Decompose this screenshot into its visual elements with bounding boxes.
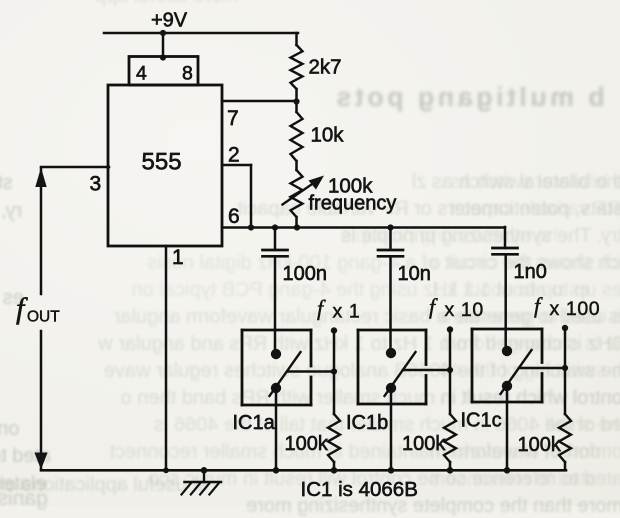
svg-text:10n: 10n — [398, 263, 431, 285]
svg-text:IC1 is 4066B: IC1 is 4066B — [301, 478, 418, 501]
svg-text:4: 4 — [136, 63, 147, 85]
svg-text:2: 2 — [228, 144, 240, 167]
svg-text:+9V: +9V — [151, 10, 188, 32]
svg-text:100n: 100n — [283, 263, 328, 285]
svg-text:x 1: x 1 — [328, 301, 360, 323]
svg-text:OUT: OUT — [27, 309, 60, 326]
svg-text:2k7: 2k7 — [309, 56, 342, 79]
svg-text:x 10: x 10 — [440, 299, 484, 321]
svg-text:f: f — [429, 294, 438, 319]
svg-text:f: f — [534, 293, 543, 318]
svg-text:1: 1 — [172, 246, 184, 269]
svg-text:10k: 10k — [311, 124, 345, 147]
svg-text:7: 7 — [227, 107, 239, 130]
svg-text:x 100: x 100 — [545, 298, 600, 320]
svg-text:frequency: frequency — [309, 193, 397, 215]
svg-text:6: 6 — [228, 205, 240, 228]
svg-text:IC1a: IC1a — [233, 412, 276, 434]
svg-text:3: 3 — [90, 173, 102, 196]
svg-text:IC1b: IC1b — [346, 412, 388, 434]
svg-text:555: 555 — [142, 149, 182, 176]
svg-text:f: f — [317, 296, 326, 321]
svg-text:1n0: 1n0 — [514, 261, 547, 283]
svg-text:100k: 100k — [402, 433, 446, 455]
svg-text:100k: 100k — [518, 434, 562, 456]
svg-text:100k: 100k — [285, 433, 329, 455]
svg-text:8: 8 — [182, 63, 193, 85]
svg-text:IC1c: IC1c — [461, 410, 502, 432]
